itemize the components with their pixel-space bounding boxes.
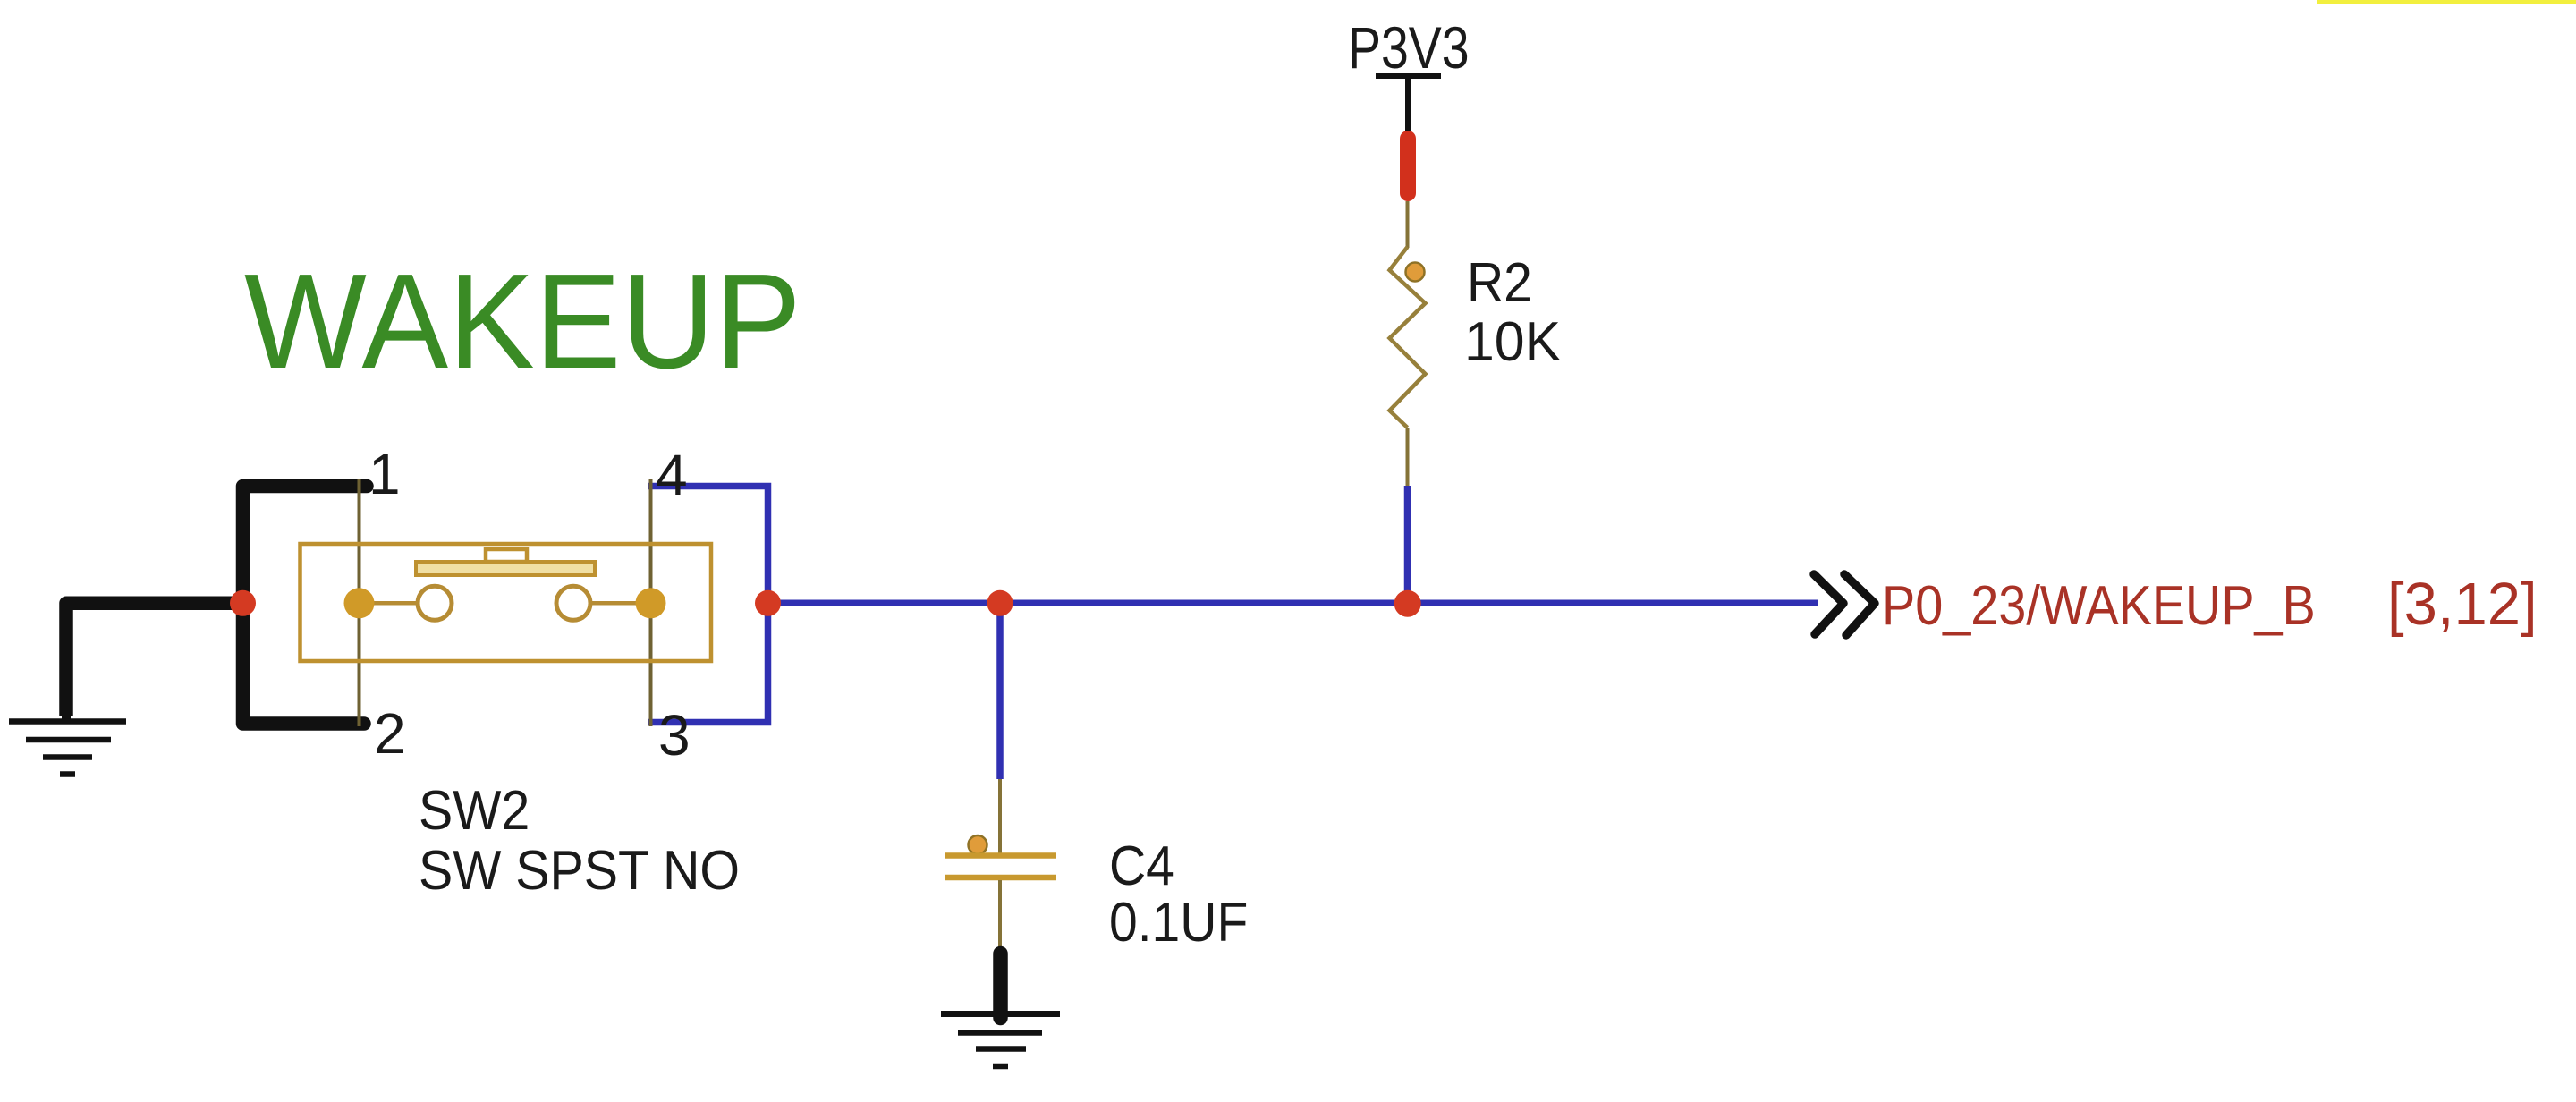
ground symbol (left) [9, 722, 126, 775]
junction dot at switch pins 4-3 / main net [755, 590, 781, 616]
wire red segment to resistor R2 [1406, 201, 1410, 248]
junction dot at capacitor C4 branch [987, 590, 1013, 616]
svg-text:4: 4 [656, 443, 688, 507]
SW2 actuator bar [416, 562, 595, 575]
SW2 pin line 1-2 [358, 479, 361, 726]
capacitor C4 top plate [945, 852, 1056, 859]
svg-text:SW SPST NO: SW SPST NO [419, 839, 740, 902]
SW2 body outline [301, 544, 712, 661]
junction dot at resistor R2 branch [1394, 590, 1421, 617]
wire to capacitor C4 top plate (tan) [998, 779, 1002, 853]
switch SW2 [301, 442, 741, 901]
svg-text:P0_23/WAKEUP_B: P0_23/WAKEUP_B [1882, 575, 2316, 636]
wire GND stub tip [62, 716, 71, 723]
wire blue bracket node to switch pins 4 and 3 [648, 487, 768, 723]
svg-text:10K: 10K [1464, 310, 1561, 373]
svg-text:3: 3 [658, 703, 691, 767]
resistor R2 body (zigzag) [1390, 247, 1426, 428]
off-page connector chevron 1 [1814, 574, 1843, 634]
SW2 left pin pad dot [344, 588, 375, 618]
svg-text:1: 1 [369, 442, 401, 506]
resistor R2 pin-1 dot [1406, 263, 1425, 282]
wire GND stub below C4 (black) [993, 954, 1008, 1018]
SW2 left contact arm [360, 601, 436, 606]
ground symbol (below C4) [941, 1014, 1060, 1067]
svg-text:[3,12]: [3,12] [2387, 571, 2538, 638]
SW2 right contact circle [556, 586, 590, 620]
wire GND branch from node to ground (left) [66, 603, 243, 716]
SW2 right pin pad dot [636, 588, 666, 618]
SW2 left contact circle [418, 586, 452, 620]
capacitor C4 bottom plate [945, 875, 1056, 881]
SW2 right contact arm [573, 601, 651, 606]
wire node to capacitor C4 (blue net part) [996, 603, 1004, 779]
wire capacitor C4 bottom plate to ground (tan) [998, 880, 1002, 948]
wire main horizontal net P0_23/WAKEUP_B [768, 600, 1819, 607]
svg-text:2: 2 [374, 701, 406, 766]
svg-text:SW2: SW2 [419, 779, 530, 842]
wire resistor R2 to node (upper tan part) [1406, 428, 1410, 486]
junction dot at GND / switch pins 1-2 [230, 590, 256, 616]
SW2 pin line 4-3 [649, 479, 653, 726]
wire GND bracket to switch pins 1 and 2 [243, 487, 368, 725]
svg-text:R2: R2 [1467, 251, 1532, 314]
capacitor C4 pin-1 dot [969, 835, 987, 854]
svg-text:P3V3: P3V3 [1348, 14, 1470, 81]
off-page connector chevron 2 [1844, 574, 1875, 635]
highlight marker (yellow) top right [2317, 0, 2576, 4]
power symbol pin wire [1405, 76, 1411, 132]
SW2 actuator button [486, 549, 527, 562]
svg-text:WAKEUP: WAKEUP [244, 246, 801, 396]
power symbol P3V3 bar [1376, 73, 1441, 79]
svg-text:0.1UF: 0.1UF [1109, 891, 1248, 954]
wire resistor R2 to node (blue net part) [1404, 486, 1411, 603]
svg-text:C4: C4 [1109, 835, 1174, 897]
wire highlight segment (red) P3V3 to R2 [1400, 139, 1416, 193]
